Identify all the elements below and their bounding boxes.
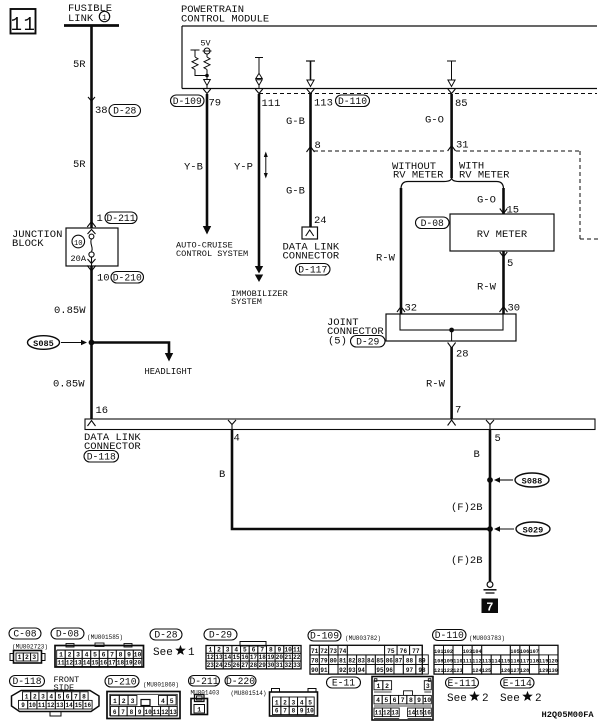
svg-text:87: 87 — [395, 658, 403, 665]
connector label D-109 pin 79 — [171, 95, 205, 107]
connector label D-28 (see star 1) — [150, 629, 182, 640]
svg-text:105: 105 — [510, 649, 519, 655]
svg-text:124: 124 — [472, 668, 481, 674]
svg-text:3: 3 — [32, 654, 36, 661]
svg-text:118: 118 — [530, 659, 539, 665]
svg-text:11: 11 — [57, 660, 65, 667]
svg-text:8: 8 — [292, 708, 296, 715]
svg-text:129: 129 — [539, 668, 548, 674]
connector D-109 — [308, 630, 341, 641]
svg-text:13: 13 — [169, 709, 177, 716]
svg-text:22: 22 — [293, 654, 301, 661]
svg-text:116: 116 — [510, 659, 519, 665]
wire Y-P pin 111 to immobilizer — [258, 94, 261, 266]
svg-text:D-28: D-28 — [154, 630, 177, 641]
svg-text:6: 6 — [102, 651, 106, 658]
connector label E-114 (see star 2) — [501, 678, 535, 689]
svg-text:16: 16 — [424, 710, 432, 717]
svg-text:5: 5 — [243, 646, 247, 653]
svg-text:32: 32 — [284, 662, 292, 669]
chevron inside junction block bottom — [88, 259, 96, 264]
svg-text:1: 1 — [18, 654, 22, 661]
svg-text:12: 12 — [66, 660, 74, 667]
svg-text:112: 112 — [472, 659, 481, 665]
svg-text:120: 120 — [549, 659, 558, 665]
svg-text:1: 1 — [188, 647, 195, 659]
svg-text:101: 101 — [434, 649, 443, 655]
svg-text:90: 90 — [311, 667, 319, 674]
svg-text:123: 123 — [453, 668, 462, 674]
svg-text:19: 19 — [267, 654, 275, 661]
svg-text:9: 9 — [127, 651, 131, 658]
svg-text:80: 80 — [330, 658, 338, 665]
svg-text:10: 10 — [144, 709, 152, 716]
svg-text:10: 10 — [29, 702, 37, 709]
connector D-211 — [189, 676, 220, 687]
splice S029 junction — [487, 526, 493, 532]
svg-text:72: 72 — [320, 648, 328, 655]
svg-text:1: 1 — [197, 706, 201, 713]
connector C-08 — [9, 628, 41, 639]
svg-text:2: 2 — [482, 693, 489, 705]
svg-text:13: 13 — [74, 660, 82, 667]
svg-text:2: 2 — [25, 654, 29, 661]
svg-text:126: 126 — [501, 668, 510, 674]
pin 4 tap — [228, 420, 236, 429]
arrow S085 to junction — [61, 342, 82, 344]
DLC terminal box — [302, 227, 318, 239]
svg-text:15: 15 — [416, 710, 424, 717]
svg-text:10: 10 — [134, 651, 142, 658]
svg-text:7: 7 — [283, 708, 287, 715]
connector D-118 (front side) — [10, 676, 45, 687]
wire R-W without RV meter to joint connector pin 32 — [400, 188, 403, 314]
svg-text:76: 76 — [400, 648, 408, 655]
bidirectional arrow beside wire — [265, 156, 267, 174]
svg-text:E-111: E-111 — [447, 678, 476, 689]
pin chevrons below PCM — [203, 89, 211, 94]
svg-text:(MU803783): (MU803783) — [469, 635, 505, 642]
svg-text:13: 13 — [215, 654, 223, 661]
svg-text:104: 104 — [472, 649, 481, 655]
svg-text:D-211: D-211 — [189, 676, 218, 687]
svg-text:C-08: C-08 — [13, 629, 36, 640]
page number box 11 — [11, 9, 36, 34]
svg-text:11: 11 — [38, 702, 46, 709]
svg-text:See: See — [500, 693, 520, 705]
svg-text:3: 3 — [41, 693, 45, 700]
wire G-O with RV meter to RV meter pin 15 — [502, 188, 505, 214]
svg-text:93: 93 — [348, 667, 356, 674]
data link connector D-118 bus bar — [85, 419, 595, 430]
svg-text:16: 16 — [100, 660, 108, 667]
svg-text:2: 2 — [33, 693, 37, 700]
svg-text:128: 128 — [520, 668, 529, 674]
svg-text:20: 20 — [134, 660, 142, 667]
svg-text:E-11: E-11 — [332, 678, 355, 689]
svg-text:4: 4 — [376, 697, 380, 704]
svg-text:17: 17 — [108, 660, 116, 667]
svg-text:18: 18 — [259, 654, 267, 661]
svg-text:6: 6 — [113, 709, 117, 716]
svg-text:119: 119 — [539, 659, 548, 665]
connector label D-08 — [416, 217, 450, 229]
svg-text:(MU802723): (MU802723) — [12, 644, 48, 651]
svg-text:8: 8 — [269, 646, 273, 653]
svg-text:5: 5 — [308, 699, 312, 706]
svg-text:2: 2 — [122, 698, 126, 705]
svg-text:6: 6 — [275, 708, 279, 715]
svg-text:6: 6 — [66, 693, 70, 700]
svg-text:3: 3 — [76, 651, 80, 658]
svg-text:114: 114 — [491, 659, 500, 665]
svg-text:74: 74 — [339, 648, 347, 655]
svg-text:20: 20 — [276, 654, 284, 661]
svg-text:1: 1 — [275, 699, 279, 706]
svg-text:84: 84 — [367, 658, 375, 665]
svg-text:E-114: E-114 — [503, 678, 532, 689]
svg-text:9: 9 — [278, 646, 282, 653]
svg-text:10: 10 — [306, 708, 314, 715]
internal stub pin 113 — [306, 60, 315, 62]
svg-text:111: 111 — [463, 659, 472, 665]
svg-text:2: 2 — [217, 646, 221, 653]
svg-text:103: 103 — [463, 649, 472, 655]
svg-text:10: 10 — [423, 697, 431, 704]
svg-text:3: 3 — [131, 698, 135, 705]
node 31 — [448, 146, 456, 152]
svg-text:(MU803782): (MU803782) — [345, 635, 381, 642]
wire R-W joint connector to DLC bus pin 7 — [450, 347, 453, 419]
connector D-210 — [105, 676, 139, 688]
RV meter box — [450, 214, 554, 251]
svg-text:79: 79 — [320, 658, 328, 665]
svg-text:7: 7 — [260, 646, 264, 653]
dashed boundary below PCM — [259, 93, 597, 95]
svg-text:5: 5 — [93, 651, 97, 658]
svg-text:H2Q05M00FA: H2Q05M00FA — [542, 710, 595, 720]
svg-text:92: 92 — [339, 667, 347, 674]
dashed line node 8 to node 31 and beyond — [314, 150, 447, 152]
svg-text:12: 12 — [47, 702, 55, 709]
connector D-220 — [225, 676, 256, 687]
svg-text:1: 1 — [113, 698, 117, 705]
svg-text:14: 14 — [224, 654, 232, 661]
svg-text:3: 3 — [426, 683, 430, 690]
svg-text:16: 16 — [84, 702, 92, 709]
fuse 10 (20A) symbol — [89, 234, 94, 239]
internal stub pin 111 — [255, 57, 263, 59]
svg-text:28: 28 — [250, 662, 258, 669]
svg-text:15: 15 — [75, 702, 83, 709]
junction block box — [66, 228, 118, 266]
svg-text:75: 75 — [387, 648, 395, 655]
splice S085 — [28, 336, 60, 350]
svg-text:109: 109 — [444, 659, 453, 665]
svg-text:See: See — [447, 693, 467, 705]
connector E-11 — [327, 677, 361, 688]
output triangle pin 79 — [204, 80, 211, 86]
wire G-O pin 85 down to option brace — [450, 94, 453, 178]
svg-text:33: 33 — [293, 662, 301, 669]
svg-text:108: 108 — [434, 659, 443, 665]
svg-text:D-118: D-118 — [12, 676, 41, 687]
option brace — [401, 178, 504, 190]
svg-text:9: 9 — [21, 702, 25, 709]
svg-text:77: 77 — [412, 648, 420, 655]
svg-text:94: 94 — [358, 667, 366, 674]
svg-text:14: 14 — [65, 702, 73, 709]
internal stub pin 85 — [447, 60, 456, 62]
wire Y-B pin 79 to auto-cruise — [206, 94, 209, 226]
pin 28 — [448, 343, 456, 349]
svg-text:19: 19 — [125, 660, 133, 667]
svg-text:5: 5 — [170, 698, 174, 705]
svg-text:15: 15 — [91, 660, 99, 667]
svg-text:16: 16 — [241, 654, 249, 661]
wire B pin 5 to ground — [489, 430, 492, 582]
svg-text:91: 91 — [320, 667, 328, 674]
svg-text:13: 13 — [391, 710, 399, 717]
svg-text:78: 78 — [311, 658, 319, 665]
wire G-B pin 113 to data link connector D-117 — [309, 94, 312, 227]
svg-text:122: 122 — [444, 668, 453, 674]
chevron below junction block — [87, 266, 96, 272]
svg-text:115: 115 — [501, 659, 510, 665]
svg-text:26: 26 — [233, 662, 241, 669]
svg-text:83: 83 — [358, 658, 366, 665]
svg-text:D-29: D-29 — [209, 630, 232, 641]
svg-text:125: 125 — [482, 668, 491, 674]
svg-text:6: 6 — [252, 646, 256, 653]
svg-text:D-220: D-220 — [226, 676, 255, 687]
double arrowhead to immobilizer — [255, 266, 263, 274]
svg-text:95: 95 — [376, 667, 384, 674]
svg-text:9: 9 — [300, 708, 304, 715]
svg-text:127: 127 — [510, 668, 519, 674]
joint connector box D-29 — [386, 314, 516, 341]
svg-text:12: 12 — [207, 654, 215, 661]
svg-text:25: 25 — [224, 662, 232, 669]
svg-text:73: 73 — [330, 648, 338, 655]
connector label D-28 — [109, 105, 141, 117]
svg-text:107: 107 — [530, 649, 539, 655]
wire B pin 4 — [232, 430, 490, 530]
svg-text:3: 3 — [292, 699, 296, 706]
svg-text:11: 11 — [375, 710, 383, 717]
fusible link bus bar — [64, 24, 119, 27]
svg-text:5: 5 — [58, 693, 62, 700]
svg-text:7: 7 — [74, 693, 78, 700]
joint connector internal dot — [449, 328, 454, 333]
svg-text:106: 106 — [520, 649, 529, 655]
svg-text:30: 30 — [267, 662, 275, 669]
svg-text:71: 71 — [311, 648, 319, 655]
connector D-08 — [51, 628, 84, 639]
svg-text:31: 31 — [276, 662, 284, 669]
svg-text:5: 5 — [384, 697, 388, 704]
svg-text:See: See — [153, 647, 173, 659]
node 8 — [307, 147, 315, 153]
svg-text:9: 9 — [138, 709, 142, 716]
svg-text:21: 21 — [284, 654, 292, 661]
svg-text:81: 81 — [339, 658, 347, 665]
svg-text:11: 11 — [153, 709, 161, 716]
svg-text:(MU801860): (MU801860) — [143, 682, 179, 689]
svg-text:96: 96 — [386, 667, 394, 674]
pin 5 tap — [486, 420, 494, 429]
svg-text:11: 11 — [293, 646, 301, 653]
svg-text:24: 24 — [215, 662, 223, 669]
svg-text:110: 110 — [453, 659, 462, 665]
svg-text:D-109: D-109 — [310, 631, 339, 642]
svg-text:D-110: D-110 — [435, 630, 464, 641]
svg-text:29: 29 — [259, 662, 267, 669]
svg-text:27: 27 — [241, 662, 249, 669]
chevron inside junction block top — [88, 230, 96, 235]
ground symbol 7 — [487, 582, 493, 588]
svg-text:121: 121 — [434, 668, 443, 674]
svg-text:2: 2 — [385, 683, 389, 690]
svg-text:15: 15 — [233, 654, 241, 661]
svg-text:13: 13 — [56, 702, 64, 709]
svg-text:(MU801585): (MU801585) — [87, 634, 123, 641]
svg-text:8: 8 — [82, 693, 86, 700]
svg-text:7: 7 — [121, 709, 125, 716]
svg-text:1: 1 — [208, 646, 212, 653]
junction dot at S085 — [89, 340, 95, 346]
svg-text:130: 130 — [549, 668, 558, 674]
junction dot inside PCM — [205, 74, 209, 78]
svg-text:85: 85 — [376, 658, 384, 665]
connector D-29 — [204, 629, 237, 640]
svg-text:12: 12 — [161, 709, 169, 716]
svg-text:2: 2 — [68, 651, 72, 658]
svg-text:23: 23 — [207, 662, 215, 669]
svg-text:1: 1 — [376, 683, 380, 690]
svg-text:88: 88 — [406, 658, 414, 665]
svg-text:86: 86 — [386, 658, 394, 665]
svg-text:102: 102 — [444, 649, 453, 655]
svg-text:2: 2 — [283, 699, 287, 706]
wire R-W RV meter to joint connector pin 30 — [502, 252, 505, 314]
svg-text:10: 10 — [284, 646, 292, 653]
svg-text:8: 8 — [130, 709, 134, 716]
svg-text:12: 12 — [383, 710, 391, 717]
resistor R (left pull-up) — [191, 49, 200, 51]
svg-text:18: 18 — [117, 660, 125, 667]
resistor R (right, under 5V) — [204, 57, 210, 70]
svg-text:3: 3 — [226, 646, 230, 653]
svg-text:8: 8 — [409, 697, 413, 704]
splice S088 — [487, 477, 493, 483]
svg-text:14: 14 — [408, 710, 416, 717]
svg-text:7: 7 — [401, 697, 405, 704]
svg-text:4: 4 — [85, 651, 89, 658]
svg-text:7: 7 — [110, 651, 114, 658]
svg-text:9: 9 — [417, 697, 421, 704]
svg-text:4: 4 — [234, 646, 238, 653]
svg-text:1: 1 — [25, 693, 29, 700]
svg-text:4: 4 — [300, 699, 304, 706]
svg-text:117: 117 — [520, 659, 529, 665]
RV meter pin 5 — [500, 252, 508, 257]
svg-text:14: 14 — [83, 660, 91, 667]
chevron node 38 — [88, 97, 95, 101]
svg-text:D-210: D-210 — [107, 676, 136, 687]
svg-text:2: 2 — [535, 693, 542, 705]
svg-text:17: 17 — [250, 654, 258, 661]
svg-text:6: 6 — [393, 697, 397, 704]
wire: junction block down to DLC bus (0.85W) — [90, 266, 93, 420]
svg-text:D-08: D-08 — [56, 629, 79, 640]
svg-text:4: 4 — [161, 698, 165, 705]
svg-text:(MU801514): (MU801514) — [231, 690, 267, 697]
connector label E-111 (see star 2) — [446, 678, 479, 689]
svg-text:97: 97 — [406, 667, 414, 674]
svg-text:113: 113 — [482, 659, 491, 665]
svg-text:8: 8 — [119, 651, 123, 658]
wire: fusible link to junction block (5R) — [90, 26, 93, 228]
PCM box outline — [181, 26, 183, 89]
svg-text:1: 1 — [59, 651, 63, 658]
svg-text:82: 82 — [348, 658, 356, 665]
connector D-110 — [433, 630, 467, 641]
wire branch to headlight — [92, 343, 170, 355]
svg-text:4: 4 — [49, 693, 53, 700]
